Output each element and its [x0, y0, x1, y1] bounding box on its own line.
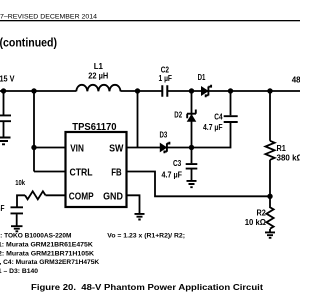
ground C1: [0, 138, 11, 145]
node VIN junction dot: [31, 145, 36, 150]
svg-text:D3: D3: [160, 131, 168, 140]
capacitor C1 plates: [0, 115, 11, 121]
node VIN branch dot: [31, 88, 36, 93]
value 4.7 uF (C4): [203, 123, 223, 132]
diode D2: [187, 110, 196, 122]
svg-text:Figure 20. 48-V Phantom Power: Figure 20. 48-V Phantom Power Applicatio…: [31, 282, 263, 292]
svg-text:4.7 µF: 4.7 µF: [162, 171, 183, 180]
svg-text:3 nF: 3 nF: [0, 204, 5, 213]
wire R2 to ground: [269, 229, 271, 232]
svg-text:7–REVISED DECEMBER 2014: 7–REVISED DECEMBER 2014: [0, 14, 97, 21]
svg-text:COMP: COMP: [69, 191, 94, 202]
label C4: [214, 112, 223, 121]
svg-text:C2: Murata GRM21BR71H105K: C2: Murata GRM21BR71H105K: [0, 250, 94, 257]
heading (continued): [0, 35, 57, 49]
resistor Rcomp 10k: [25, 191, 45, 199]
svg-text:10 kΩ: 10 kΩ: [245, 218, 267, 227]
header rule: [0, 20, 300, 21]
value nF comp capacitor: [0, 204, 5, 213]
svg-text:22 µH: 22 µH: [88, 72, 108, 81]
label R1: [277, 144, 287, 153]
svg-text:1 µF: 1 µF: [159, 74, 173, 83]
note C2 part: [0, 250, 94, 257]
ground R2: [265, 232, 275, 237]
inductor L1: [76, 85, 120, 92]
wire C1 branch down: [3, 91, 5, 115]
svg-text:48 V: 48 V: [292, 76, 300, 85]
diode D1: [202, 85, 212, 97]
diode D3: [160, 142, 169, 154]
svg-text:D2: D2: [174, 110, 182, 119]
pin CTRL: [70, 167, 93, 178]
wire comp cap to ground: [16, 214, 18, 225]
capacitor C2 plates: [162, 85, 167, 96]
node SW-D3-C3 dot: [189, 145, 194, 150]
svg-text:D1 – D3: B140: D1 – D3: B140: [0, 268, 38, 275]
header revision text: [0, 14, 97, 21]
pin FB: [111, 167, 121, 178]
value 22 uH: [88, 72, 108, 81]
resistor R1: [265, 141, 274, 160]
svg-text:R2: R2: [257, 209, 267, 218]
label R2: [257, 209, 267, 218]
svg-text:D1: D1: [198, 73, 206, 82]
note C3 C4 part: [0, 259, 99, 266]
value 10 kOhm: [245, 218, 267, 227]
capacitor C3 plates: [186, 164, 198, 169]
label 15 V input: [0, 73, 15, 83]
capacitor Ccomp plates: [11, 207, 24, 213]
wire C1 to ground: [3, 122, 5, 137]
node FB divider dot: [267, 194, 272, 199]
svg-text:VIN: VIN: [70, 143, 84, 154]
ground GND pin: [135, 214, 145, 220]
svg-text:(continued): (continued): [0, 35, 57, 49]
pin COMP: [69, 191, 94, 202]
svg-text:C1: Murata GRM21BR61E475K: C1: Murata GRM21BR61E475K: [0, 242, 93, 249]
svg-text:CTRL: CTRL: [70, 167, 93, 178]
formula Vo: [107, 233, 185, 240]
svg-text:TPS61170: TPS61170: [72, 121, 116, 133]
svg-text:GND: GND: [103, 191, 123, 202]
label 10k comp resistor: [15, 180, 25, 187]
svg-text:Vo = 1.23 x (R1+R2)/ R2;: Vo = 1.23 x (R1+R2)/ R2;: [107, 233, 185, 240]
svg-text:SW: SW: [109, 143, 124, 154]
label C2: [161, 66, 170, 75]
wire top rail right of C2: [168, 90, 300, 92]
svg-text:4.7 µF: 4.7 µF: [203, 123, 223, 132]
wire C4 branch top: [230, 91, 232, 115]
wire L1 node down to SW row: [137, 91, 139, 148]
label D2: [174, 110, 182, 119]
node C2-D1-D2 dot: [189, 88, 194, 93]
wire top rail L1 to C2: [121, 90, 162, 92]
svg-text:C4: C4: [214, 112, 223, 121]
note L1 part: [0, 233, 72, 240]
svg-text:L1: L1: [94, 62, 104, 71]
pin VIN: [70, 143, 84, 154]
svg-text:C3: C3: [173, 159, 182, 168]
svg-text:10k: 10k: [15, 180, 25, 187]
wire GND pin: [127, 195, 140, 213]
node L1 output dot: [135, 88, 140, 93]
IC U1 TPS61170 box: [66, 132, 127, 207]
svg-text:C3, C4: Murata GRM32ER71H475K: C3, C4: Murata GRM32ER71H475K: [0, 259, 99, 266]
wire FB feedback: [127, 172, 271, 197]
wire SW row: [127, 147, 192, 149]
label D3: [160, 131, 168, 140]
svg-text:380 kΩ: 380 kΩ: [277, 153, 301, 162]
wire output rail to R1: [269, 91, 271, 141]
value 380 kOhm: [277, 153, 304, 162]
pin GND: [103, 191, 123, 202]
wire comp RC corner: [17, 195, 25, 206]
wire top rail left of L1: [0, 90, 76, 92]
node after D1 (C4 tap) dot: [228, 88, 233, 93]
resistor R2: [266, 196, 273, 228]
wire C4 bottom to SW node: [192, 123, 231, 148]
svg-text:15 V: 15 V: [0, 73, 15, 83]
node output rail dot: [267, 88, 272, 93]
pin SW: [109, 143, 124, 154]
wire R1 to FB node: [269, 160, 271, 197]
label L1: [94, 62, 104, 71]
note C1 part: [0, 242, 93, 249]
svg-text:FB: FB: [111, 167, 121, 178]
label C3: [173, 159, 182, 168]
wire COMP pin: [46, 194, 66, 196]
svg-text:L1: TOKO B1000AS-220M: L1: TOKO B1000AS-220M: [0, 233, 72, 240]
svg-text:R1: R1: [277, 144, 287, 153]
value 4.7 uF (C3): [162, 171, 183, 180]
wire VIN/CTRL branch: [34, 91, 66, 172]
note D1-D3 part: [0, 268, 38, 275]
label 48 V output: [292, 76, 309, 85]
wire D2 branch vertical: [191, 91, 193, 148]
wire C3 to ground: [191, 169, 193, 180]
ground C3: [187, 181, 197, 187]
node input rail dot: [1, 88, 6, 93]
caption Figure 20: [31, 282, 263, 292]
wire C3 branch down: [191, 148, 193, 164]
label U1 TPS61170: [72, 121, 116, 133]
capacitor C4 plates: [224, 116, 238, 122]
label D1: [198, 73, 206, 82]
value 1 uF: [159, 74, 173, 83]
ground comp: [11, 226, 23, 231]
